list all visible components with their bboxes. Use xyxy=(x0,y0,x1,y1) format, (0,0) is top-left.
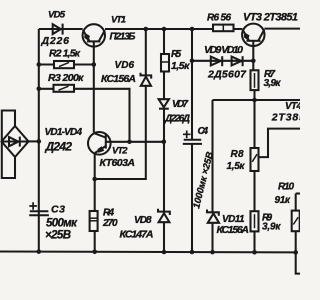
svg-text:КТ603А: КТ603А xyxy=(100,157,136,169)
svg-text:П213Б: П213Б xyxy=(110,32,136,43)
svg-text:VD1-VD4: VD1-VD4 xyxy=(45,127,83,138)
svg-text:×25В: ×25В xyxy=(45,230,71,242)
svg-text:91к: 91к xyxy=(275,195,291,206)
svg-text:VT2: VT2 xyxy=(112,146,128,157)
svg-text:КС156А: КС156А xyxy=(217,224,250,236)
svg-text:R3 200к: R3 200к xyxy=(48,72,84,84)
svg-text:Д242: Д242 xyxy=(45,140,73,154)
svg-text:R4: R4 xyxy=(103,208,114,219)
svg-text:2Т3851: 2Т3851 xyxy=(271,111,300,123)
svg-text:КС156А: КС156А xyxy=(101,73,136,85)
svg-text:1,5к: 1,5к xyxy=(227,161,246,172)
svg-text:R5: R5 xyxy=(171,49,181,60)
svg-text:VD5: VD5 xyxy=(48,10,66,21)
svg-text:VT1: VT1 xyxy=(111,14,126,25)
svg-text:VT3 2Т3851: VT3 2Т3851 xyxy=(243,12,298,24)
svg-text:Д226: Д226 xyxy=(41,35,70,47)
svg-text:VD8: VD8 xyxy=(134,215,152,226)
svg-text:VD9 VD10: VD9 VD10 xyxy=(204,44,243,56)
svg-text:2Д5607: 2Д5607 xyxy=(207,69,247,81)
svg-text:3,9к: 3,9к xyxy=(262,222,281,233)
svg-text:R2 1,5к: R2 1,5к xyxy=(49,47,81,59)
svg-text:VD7: VD7 xyxy=(172,99,188,110)
svg-text:270: 270 xyxy=(102,218,118,229)
svg-text:R6 56: R6 56 xyxy=(207,13,231,24)
svg-text:Д226Д: Д226Д xyxy=(164,114,190,125)
svg-text:С3: С3 xyxy=(51,204,65,216)
svg-text:R8: R8 xyxy=(231,149,244,160)
svg-text:1,5к: 1,5к xyxy=(171,60,190,72)
svg-text:500мк: 500мк xyxy=(46,218,78,230)
svg-text:VD6: VD6 xyxy=(115,60,135,71)
svg-text:R10: R10 xyxy=(278,182,294,193)
svg-text:КС147А: КС147А xyxy=(120,229,154,241)
svg-text:3,9к: 3,9к xyxy=(264,78,282,89)
svg-text:С4: С4 xyxy=(198,126,209,137)
